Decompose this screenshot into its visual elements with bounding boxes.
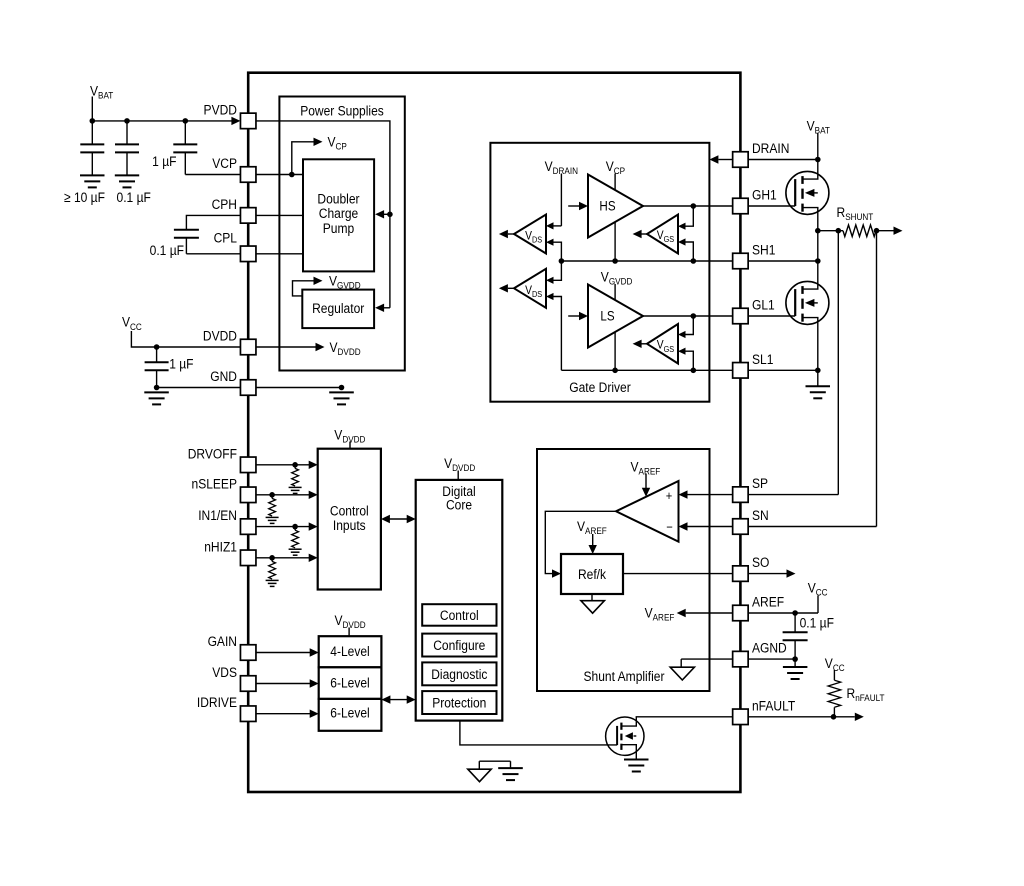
- wire VCP through HS to SH1: [614, 222, 616, 261]
- svg-text:DVDD: DVDD: [203, 328, 237, 344]
- svg-text:SO: SO: [752, 554, 769, 570]
- wire VCC stub aref: [817, 596, 819, 614]
- wire GAIN into 4-Level: [256, 652, 310, 654]
- junction SL1 mid: [612, 368, 618, 374]
- wire SH1 external: [748, 260, 818, 262]
- wire SL1 to VGS lower lower-input: [686, 351, 694, 370]
- wire VBAT down to DRAIN: [817, 134, 819, 160]
- transistor M2 low-side NMOS: [786, 281, 829, 324]
- wire VBAT to PVDD rail: [91, 97, 93, 121]
- wire SP sense vertical: [837, 231, 839, 495]
- wire nFAULT to M3 drain: [621, 717, 732, 726]
- svg-text:VCC: VCC: [808, 580, 828, 598]
- wire PVDD rail: [92, 120, 233, 122]
- pin DVDD: [240, 339, 256, 355]
- wire VGS lower output arrow: [642, 343, 648, 345]
- wire SL1 net: [561, 369, 732, 371]
- comparator VGS upper: [647, 215, 678, 254]
- svg-text:VDS: VDS: [212, 664, 237, 680]
- svg-text:4-Level: 4-Level: [330, 643, 370, 659]
- junction VCP: [289, 172, 295, 178]
- wire GL1 net: [643, 315, 733, 317]
- svg-text:GL1: GL1: [752, 297, 775, 313]
- wire GH1 to VGS upper input: [686, 206, 694, 226]
- svg-text:Core: Core: [446, 497, 472, 513]
- wire level stack to Protection bidirectional: [390, 699, 407, 701]
- svg-text:6-Level: 6-Level: [330, 674, 370, 690]
- pin SH1: [733, 253, 749, 269]
- capacitor C1 bulk >=10uF: [91, 121, 93, 144]
- wire GL1 to VGS lower input: [686, 316, 694, 335]
- ground GND external: [144, 391, 169, 393]
- block Gate Driver: [490, 143, 709, 402]
- pin nSLEEP: [240, 487, 256, 503]
- junction IN1 pulldown: [292, 524, 298, 530]
- pin GH1: [733, 198, 749, 214]
- junction SL1 right: [691, 368, 697, 374]
- junction C4 tap: [154, 344, 160, 350]
- junction DRVOFF pulldown: [292, 462, 298, 468]
- svg-text:1 µF: 1 µF: [169, 356, 193, 372]
- comparator VDS lower triangle: [514, 269, 546, 308]
- wire GND internal: [256, 387, 342, 389]
- capacitor C5 0.1uF flying: [174, 229, 199, 231]
- comparator VGS lower: [647, 324, 678, 364]
- junction AREF cap: [792, 610, 798, 616]
- ground DRVOFF pulldown: [289, 486, 302, 488]
- ground AGND external: [794, 659, 796, 667]
- svg-text:Control: Control: [330, 502, 369, 518]
- wire VDVDD stub digital core: [457, 471, 459, 480]
- svg-text:GAIN: GAIN: [208, 633, 237, 649]
- block Control Inputs: [318, 449, 381, 590]
- svg-text:Shunt Amplifier: Shunt Amplifier: [584, 668, 666, 684]
- svg-text:−: −: [666, 520, 673, 535]
- wire VCP into HS: [614, 174, 616, 191]
- op-amp A1 shunt amplifier: [616, 481, 679, 542]
- wire SN sense vertical: [876, 231, 878, 527]
- svg-text:nFAULT: nFAULT: [752, 697, 795, 713]
- wire VDS lower top input: [553, 261, 561, 280]
- wire AREF internal arrow: [686, 612, 733, 614]
- svg-text:Protection: Protection: [432, 695, 486, 711]
- wire CPL external: [186, 253, 240, 255]
- svg-text:HS: HS: [599, 199, 615, 214]
- svg-text:Configure: Configure: [433, 637, 485, 653]
- block Ref/k: [561, 554, 623, 594]
- wire VCC stub nfault: [833, 670, 835, 680]
- wire SO net: [623, 573, 733, 575]
- wire SL1 external: [748, 369, 818, 371]
- wire CPH internal: [256, 214, 303, 216]
- block 6-Level upper: [319, 667, 382, 699]
- svg-text:IDRIVE: IDRIVE: [197, 694, 237, 710]
- wire GND external: [157, 387, 241, 389]
- wire VDVDD stub control inputs: [349, 442, 351, 449]
- wire VDRAIN vertical: [560, 174, 562, 226]
- pin SP: [733, 487, 749, 503]
- wire VAREF arrow into Ref/k: [592, 534, 594, 546]
- junction C2 tap: [124, 118, 130, 124]
- block Doubler Charge Pump: [303, 159, 374, 271]
- capacitor C6 0.1uF AREF: [794, 613, 796, 632]
- svg-text:Control: Control: [440, 607, 479, 623]
- wire nSLEEP into Control Inputs: [256, 494, 309, 496]
- wire SP pin to sense: [748, 494, 838, 496]
- wire VCC to DVDD: [131, 331, 240, 347]
- svg-text:≥ 10 µF: ≥ 10 µF: [64, 189, 105, 205]
- wire SH1 to VGS upper lower-input: [686, 242, 694, 261]
- wire DRAIN arrow into gate driver: [719, 159, 733, 161]
- svg-text:SN: SN: [752, 507, 769, 523]
- svg-text:CPL: CPL: [214, 229, 237, 245]
- svg-text:VAREF: VAREF: [577, 518, 607, 536]
- block Digital Core: [416, 480, 503, 721]
- resistor DRVOFF pulldown: [294, 465, 296, 469]
- svg-text:VBAT: VBAT: [807, 117, 831, 135]
- wire SN into op-amp: [688, 526, 733, 528]
- ground tie digital-analog: [479, 760, 510, 762]
- pin GL1: [733, 308, 749, 324]
- wire AREF external: [748, 612, 818, 614]
- svg-text:VAREF: VAREF: [645, 605, 675, 623]
- svg-text:+: +: [666, 488, 673, 503]
- svg-text:GH1: GH1: [752, 187, 777, 203]
- svg-text:Inputs: Inputs: [333, 517, 366, 533]
- resistor IN1 pulldown: [294, 527, 296, 531]
- transistor M1 high-side NMOS: [786, 171, 829, 214]
- pin SN: [733, 519, 749, 535]
- svg-text:Gate Driver: Gate Driver: [569, 379, 631, 395]
- signal ground AGND internal: [680, 659, 682, 667]
- svg-text:DRVOFF: DRVOFF: [188, 445, 237, 461]
- svg-text:0.1 µF: 0.1 µF: [117, 189, 151, 205]
- svg-text:SP: SP: [752, 475, 768, 491]
- junction SH1 mid: [612, 258, 618, 264]
- pin SL1: [733, 363, 749, 379]
- wire RSHUNT row: [818, 230, 843, 232]
- svg-text:6-Level: 6-Level: [330, 705, 370, 721]
- junction nSLEEP pulldown: [269, 492, 275, 498]
- svg-text:PVDD: PVDD: [204, 102, 237, 118]
- capacitor C3 1uF VCP: [184, 121, 186, 144]
- wire VDS upper output arrow: [508, 233, 514, 235]
- pin GND: [240, 380, 256, 396]
- amplifier HS: [588, 175, 643, 238]
- svg-text:SL1: SL1: [752, 351, 773, 367]
- svg-text:Charge: Charge: [319, 205, 358, 221]
- svg-text:nSLEEP: nSLEEP: [192, 475, 238, 491]
- wire VCP sense to arrow: [292, 142, 314, 175]
- svg-text:Power Supplies: Power Supplies: [300, 103, 384, 119]
- wire RSHUNT output arrow: [877, 230, 894, 232]
- pin IN1/EN: [240, 519, 256, 535]
- block Regulator: [302, 290, 374, 329]
- wire AGND external: [748, 658, 795, 660]
- wire VDS into 6-Level: [256, 683, 310, 685]
- svg-text:RnFAULT: RnFAULT: [846, 685, 885, 703]
- svg-text:AREF: AREF: [752, 594, 784, 610]
- svg-text:0.1 µF: 0.1 µF: [150, 242, 184, 258]
- capacitor C4 1uF DVDD: [156, 347, 158, 362]
- junction GND cap: [154, 385, 160, 391]
- junction nHIZ1 pulldown: [269, 555, 275, 561]
- svg-text:RSHUNT: RSHUNT: [836, 204, 873, 222]
- wire SN pin to sense: [748, 526, 876, 528]
- wire VDVDD stub level stack: [348, 628, 350, 637]
- ground nSLEEP pulldown: [266, 516, 279, 518]
- wire VGVDD through LS to SL1: [614, 332, 616, 370]
- transistor M3 open-drain NMOS: [606, 717, 644, 755]
- wire VDS lower output arrow: [508, 287, 514, 289]
- svg-text:VDVDD: VDVDD: [334, 612, 365, 630]
- wire nFAULT external: [748, 716, 833, 718]
- block Configure: [422, 634, 496, 657]
- ground IN1 pulldown: [289, 548, 302, 550]
- junction SH1 left: [559, 258, 565, 264]
- junction SP tap: [836, 228, 842, 234]
- wire VDS upper bottom input: [553, 242, 561, 261]
- svg-text:Doubler: Doubler: [317, 191, 360, 207]
- wire PVDD to regulator: [389, 214, 391, 307]
- pin VCP: [240, 167, 256, 183]
- svg-text:Ref/k: Ref/k: [578, 566, 607, 582]
- pin nFAULT: [733, 709, 749, 725]
- wire CPL internal: [256, 253, 303, 255]
- junction SL1 external: [815, 368, 821, 374]
- block 4-Level: [319, 636, 382, 667]
- block Power Supplies: [279, 97, 404, 371]
- wire VGVDD sense: [293, 281, 314, 296]
- pin GAIN: [240, 645, 256, 661]
- block Shunt Amplifier: [537, 449, 710, 691]
- pin SO: [733, 566, 749, 582]
- svg-text:DRAIN: DRAIN: [752, 140, 789, 156]
- junction GL1: [691, 313, 697, 319]
- resistor nSLEEP pulldown: [271, 495, 273, 499]
- ground C1: [80, 174, 105, 176]
- wire IN1 into Control Inputs: [256, 526, 309, 528]
- svg-text:Diagnostic: Diagnostic: [431, 666, 488, 682]
- svg-text:VBAT: VBAT: [90, 82, 114, 100]
- svg-text:Regulator: Regulator: [312, 300, 365, 316]
- wire op-amp output to Ref/k: [545, 511, 616, 573]
- svg-text:VCC: VCC: [122, 314, 142, 332]
- svg-text:SH1: SH1: [752, 242, 775, 258]
- wire VGS upper output arrow: [642, 233, 648, 235]
- svg-text:0.1 µF: 0.1 µF: [800, 615, 834, 631]
- resistor RSHUNT: [843, 225, 876, 237]
- svg-text:GND: GND: [210, 368, 237, 384]
- wire M1 source to M2 drain: [817, 231, 819, 261]
- block 6-Level lower: [319, 699, 382, 731]
- wire PVDD internal to charge pump and regulator: [256, 121, 390, 214]
- wire GH1 net: [643, 205, 733, 207]
- wire DRAIN external: [748, 159, 818, 161]
- resistor nHIZ1 pulldown: [271, 558, 273, 562]
- wire Protection to M3 gate: [460, 721, 617, 745]
- junction GH1: [691, 203, 697, 209]
- wire VGVDD into LS: [614, 284, 616, 300]
- junction C3 tap: [183, 118, 189, 124]
- svg-text:AGND: AGND: [752, 640, 787, 656]
- wire VDS upper top input: [553, 225, 561, 227]
- wire LS input arrow: [568, 315, 579, 317]
- pin CPH: [240, 208, 256, 224]
- svg-text:CPH: CPH: [212, 196, 237, 212]
- svg-text:LS: LS: [600, 309, 614, 324]
- junction DRAIN: [815, 157, 821, 163]
- junction SH1 right: [691, 258, 697, 264]
- pin AREF: [733, 605, 749, 621]
- ground M3 source: [624, 759, 649, 761]
- ground GND internal: [329, 391, 354, 393]
- junction VBAT: [90, 118, 96, 124]
- wire nHIZ1 into Control Inputs: [256, 557, 309, 559]
- wire SH1 net: [561, 260, 732, 262]
- junction PVDD internal: [387, 212, 393, 218]
- wire IDRIVE into 6-Level: [256, 713, 310, 715]
- wire VAREF arrow into op-amp: [645, 474, 647, 489]
- wire AGND internal: [681, 658, 732, 660]
- wire HS input arrow: [568, 205, 579, 207]
- amplifier LS: [588, 285, 643, 348]
- svg-text:IN1/EN: IN1/EN: [198, 507, 237, 523]
- resistor RnFAULT pullup: [828, 680, 841, 707]
- IC boundary U1: [248, 73, 740, 792]
- ground C2: [115, 174, 139, 176]
- junction GND internal: [339, 385, 345, 391]
- svg-text:VGVDD: VGVDD: [601, 269, 633, 287]
- junction SN tap: [874, 228, 880, 234]
- junction nFAULT: [831, 714, 837, 720]
- pin DRVOFF: [240, 457, 256, 473]
- block Protection: [422, 691, 496, 714]
- block Diagnostic: [422, 662, 496, 685]
- svg-text:Pump: Pump: [323, 220, 354, 236]
- pin nHIZ1: [240, 550, 256, 566]
- svg-text:VDVDD: VDVDD: [444, 455, 475, 473]
- pin DRAIN: [733, 152, 749, 168]
- pin IDRIVE: [240, 706, 256, 722]
- wire DRVOFF into Control Inputs: [256, 464, 309, 466]
- capacitor C2 0.1uF: [126, 121, 128, 144]
- wire VCP external: [185, 174, 240, 176]
- pin PVDD: [240, 113, 256, 128]
- wire Control Inputs to Digital Core bidirectional: [390, 518, 408, 520]
- wire SO output arrow: [748, 573, 786, 575]
- junction AGND: [792, 656, 798, 662]
- signal ground Ref/k: [591, 594, 593, 601]
- wire VDS lower bottom input: [553, 297, 561, 371]
- svg-text:VCP: VCP: [212, 155, 237, 171]
- wire CPH external: [186, 215, 240, 229]
- pin CPL: [240, 246, 256, 261]
- ground nHIZ1 pulldown: [266, 579, 279, 581]
- pin AGND: [733, 651, 749, 667]
- wire RnFAULT to nFAULT: [833, 707, 835, 717]
- ground power stage: [817, 370, 819, 386]
- svg-text:nHIZ1: nHIZ1: [204, 538, 237, 554]
- pin VDS: [240, 676, 256, 692]
- junction SH1 external: [815, 258, 821, 264]
- wire SP into op-amp: [688, 494, 733, 496]
- wire VCP internal: [256, 174, 303, 176]
- wire nFAULT output arrow: [834, 716, 855, 718]
- comparator VDS upper triangle: [514, 215, 546, 254]
- wire DVDD internal: [256, 346, 316, 348]
- junction M1 source: [815, 228, 821, 234]
- block Control: [422, 604, 496, 626]
- svg-text:1 µF: 1 µF: [152, 153, 176, 169]
